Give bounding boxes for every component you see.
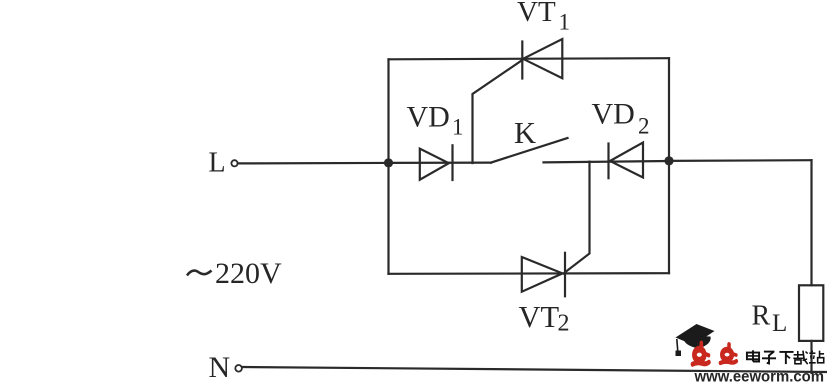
wire mid-right segment [544, 161, 670, 162]
svg-text:2: 2 [558, 311, 570, 337]
wire mid-left segment [389, 162, 492, 164]
resistor RL body [799, 285, 823, 341]
node junction right [664, 156, 673, 165]
svg-text:R: R [752, 301, 771, 332]
label VD2 [592, 98, 650, 139]
VT1 gate wire [473, 59, 524, 163]
svg-text:220V: 220V [215, 257, 282, 290]
char dian [747, 350, 759, 361]
bridge box left edge [387, 59, 389, 273]
watermark logo cap [676, 324, 715, 356]
svg-text:2: 2 [638, 114, 650, 139]
watermark chongchong char 1 [692, 343, 709, 364]
bridge box bottom wire [389, 272, 670, 275]
svg-text:1: 1 [452, 115, 464, 140]
svg-text:VT: VT [519, 300, 560, 334]
thyristor VT1 [522, 39, 562, 79]
terminal N [235, 365, 242, 372]
char zi [762, 352, 776, 364]
char zhan [809, 351, 824, 363]
svg-text:www.eeworm.com: www.eeworm.com [694, 369, 824, 382]
bridge box right edge [668, 58, 670, 273]
svg-text:VD: VD [592, 98, 635, 131]
svg-text:L: L [209, 148, 226, 179]
VT2 gate wire [564, 162, 590, 274]
label RL [752, 301, 788, 337]
label VT1 [517, 0, 570, 35]
label ~220V [187, 271, 212, 276]
svg-text:L: L [772, 310, 787, 337]
svg-text:VT: VT [517, 0, 556, 28]
thyristor VT2 [522, 253, 565, 296]
char xia [779, 352, 793, 364]
wire junction to load [669, 159, 812, 162]
terminal L [231, 160, 237, 166]
label VD1 [407, 101, 464, 140]
svg-text:N: N [209, 351, 231, 382]
wire load bottom lead [810, 341, 812, 373]
svg-text:VD: VD [407, 101, 450, 134]
watermark text dianzixiazaizhan [747, 350, 824, 364]
wire N line [243, 367, 827, 372]
svg-text:1: 1 [559, 10, 571, 35]
label VT2 [519, 300, 570, 337]
diode VD2 [609, 143, 644, 179]
watermark chongchong char 2 [720, 344, 736, 363]
char zai [793, 351, 807, 364]
bridge box top wire [389, 58, 670, 59]
node junction left [384, 158, 393, 167]
wire load top lead [810, 160, 812, 285]
svg-text:K: K [514, 116, 536, 150]
switch K arm [491, 138, 568, 163]
wire L lead [238, 162, 389, 165]
diode VD1 [420, 145, 453, 180]
